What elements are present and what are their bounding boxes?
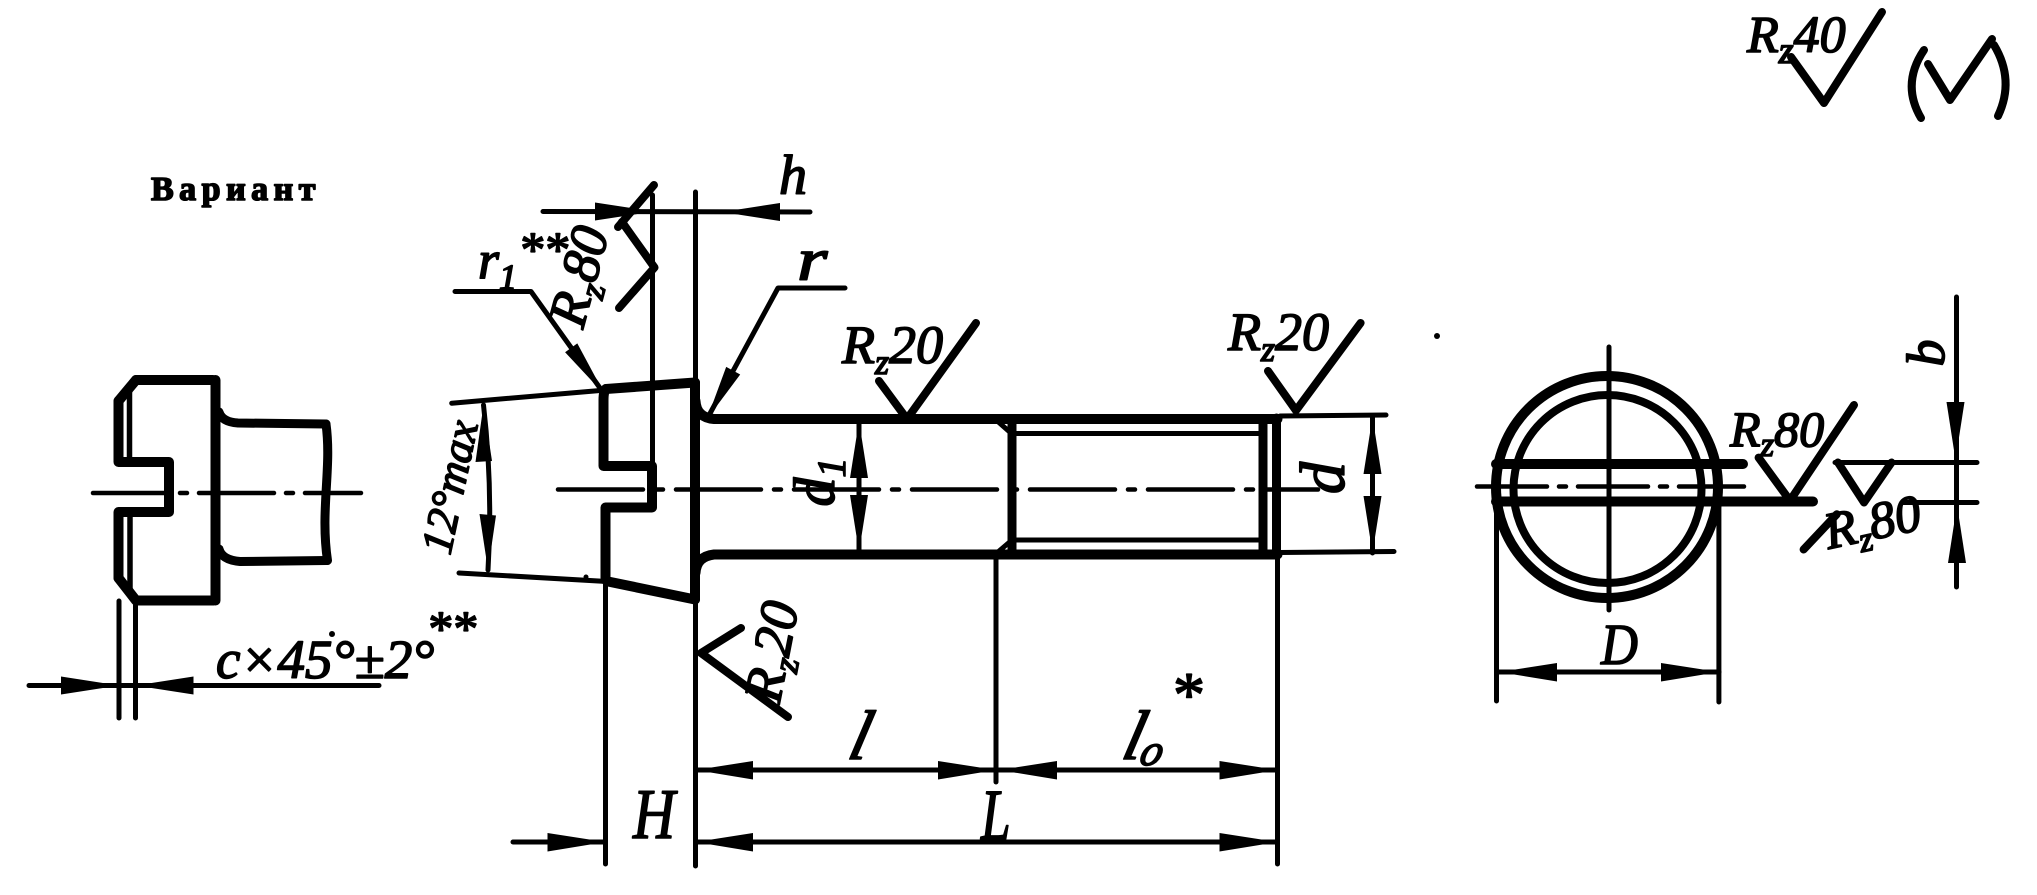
dimension d extension lines [1280,415,1394,553]
extension line: slot bottom [650,195,655,462]
dimension d [1370,417,1375,553]
svg-text:H: H [632,776,678,855]
main view: head outline [604,383,696,600]
right view: outer circle [1496,376,1718,598]
variant view: chamfer inner edges [127,392,133,592]
dimension L line [696,840,1278,845]
thread minor diameter lines [1012,434,1261,541]
svg-text:Rz20: Rz20 [1227,302,1329,369]
svg-text:b: b [1896,340,1956,367]
svg-text:L: L [980,775,1010,855]
dimension l and l0 line [696,768,1278,773]
dimension d1 [857,421,862,552]
svg-text:r: r [797,227,828,293]
dimension c extension lines [119,601,136,718]
surface finish Rz20 on bearing face [701,596,817,717]
dimension c arrows [61,677,119,695]
dimension H [513,840,606,845]
end chamfer line [1259,420,1268,553]
main view: taper extension lines [452,390,607,582]
svg-text:**: ** [426,600,476,656]
svg-text:lo: lo [1116,698,1177,775]
svg-text:d1: d1 [782,458,854,507]
surface finish note Rz40 (general) [1746,7,1882,103]
right view: horizontal centerline [1477,484,1744,489]
dimension c line [29,683,379,688]
leader r [707,288,845,419]
surface finish Rz80 on slot sides (circle view) [1729,401,1854,501]
dimension b [1954,297,1959,587]
variant view: shank with fillets and break line [219,412,328,562]
surface finish Rz80 on slot bottom [536,185,654,336]
svg-text:c×45°±2°: c×45°±2° [216,629,434,690]
centerline main view [558,487,1318,492]
extension line: head face [693,192,698,866]
svg-text:Rz40: Rz40 [1746,7,1846,72]
dimension h [543,209,810,215]
surface finish Rz80 second [1804,463,1928,567]
dimension D [1499,670,1719,675]
surface finish Rz20 on shank [841,315,976,419]
right view: inner circle [1514,395,1702,583]
svg-text:Вариант: Вариант [151,171,321,208]
svg-text:d: d [1287,461,1358,494]
svg-text:Rz80: Rz80 [1818,485,1927,567]
extension lines bottom [603,584,608,864]
thread start line [1008,421,1017,552]
end face [1272,418,1281,555]
leader r1 [455,292,605,396]
svg-text:r1: r1 [478,230,517,297]
svg-text:h: h [779,145,807,207]
svg-text:12°max: 12°max [412,415,488,558]
surface finish Rz20 on thread [1227,302,1361,411]
right view: slot lines [1496,459,1743,469]
svg-text:Rz80: Rz80 [1729,401,1824,464]
svg-text:Rz20: Rz20 [732,596,817,709]
dimension 12°max arc [484,405,490,570]
dimension b extension lines [1835,463,1977,503]
scan speckles [1434,333,1440,339]
svg-text:D: D [1600,612,1638,677]
bracketed check symbol [1912,39,2006,118]
variant view: centerline [93,491,361,496]
main view: shank outline [696,401,1278,573]
variant view: head outline [119,380,216,601]
right view: vertical centerline [1607,347,1612,610]
dimension D extension lines [1497,498,1719,702]
svg-text:l: l [842,698,881,775]
thread runout [995,419,1012,555]
svg-text:*: * [1170,659,1202,730]
svg-text:Rz20: Rz20 [841,315,943,382]
